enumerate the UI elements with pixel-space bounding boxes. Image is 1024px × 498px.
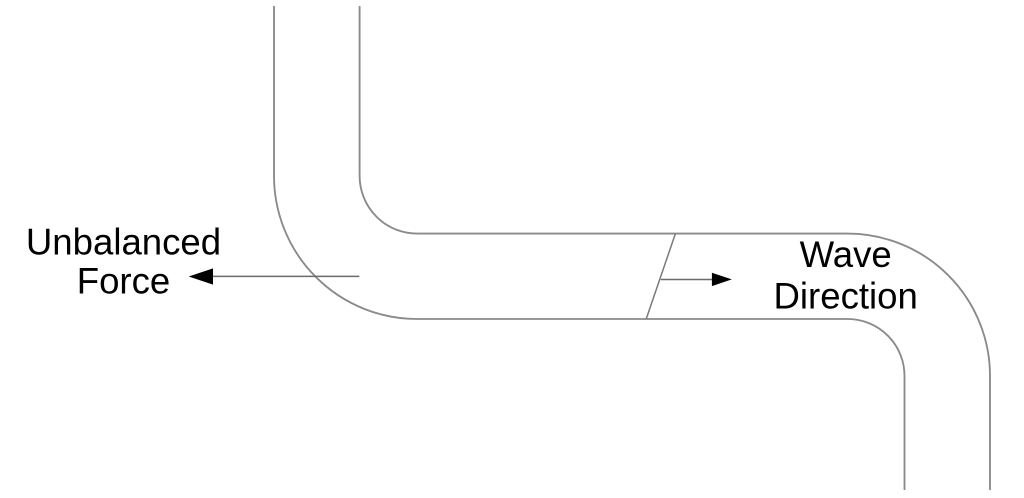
svg-text:Unbalanced: Unbalanced <box>26 222 221 263</box>
svg-text:Direction: Direction <box>774 275 918 316</box>
svg-text:Force: Force <box>77 261 171 302</box>
svg-text:Wave: Wave <box>800 234 892 275</box>
